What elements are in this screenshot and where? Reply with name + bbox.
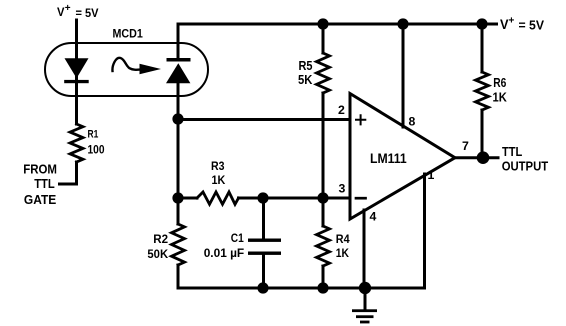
node R6 top junction (482,24) [476,18,487,29]
wire node B down to R2 [177,198,180,224]
svg-text:OUTPUT: OUTPUT [502,159,549,174]
wire pin2 input rail [178,118,350,121]
svg-text:R4: R4 [336,232,350,246]
light arrow (squiggle) inside MCD1 [112,58,161,74]
wire photodiode anode down to node A [177,82,180,119]
wire top rail V+ [178,23,497,26]
wire bottom rail [178,287,425,290]
wire node A down to node B [177,119,180,198]
svg-text:R1: R1 [88,129,99,141]
node R4 bottom junction (323,288) [317,282,328,293]
wire photodiode cathode riser [177,24,180,58]
wire node B to R3 [178,197,197,200]
svg-text:V: V [57,5,65,19]
node C1 bottom junction (263,288) [257,282,268,293]
wire pin 8 from top rail [402,24,405,127]
svg-text:4: 4 [370,210,377,224]
resistor R3 [197,192,239,204]
svg-text:5K: 5K [298,73,312,87]
resistor R6 [476,24,489,158]
svg-text:C1: C1 [231,231,244,245]
svg-text:FROM: FROM [23,162,57,177]
svg-text:R5: R5 [299,59,313,73]
node ground junction (365,288) [359,282,371,294]
node B junction (178,198) [172,192,183,203]
svg-text:1: 1 [428,168,435,182]
svg-text:+: + [65,3,71,14]
svg-text:1K: 1K [493,91,507,105]
svg-text:7: 7 [462,139,469,153]
wire LED anode from V+ [75,20,78,59]
svg-text:3: 3 [339,182,346,196]
wire R3 to pin3 of U1 [239,197,351,200]
node A junction (178,119) [172,113,183,124]
svg-text:GATE: GATE [24,192,57,207]
svg-text:= 5V: = 5V [519,19,545,33]
wire pin 1 to bottom rail [423,174,426,288]
svg-text:0.01 µF: 0.01 µF [204,246,245,260]
node R5/R4 junction (323,198) [317,192,328,203]
svg-text:50K: 50K [147,247,168,261]
resistor R5 [317,24,330,198]
minus sign (pin 3 input) [356,197,366,200]
node C1 top junction (263,198) [257,192,268,203]
svg-text:TTL: TTL [502,144,522,159]
svg-text:2: 2 [338,103,345,117]
photodiode inside MCD1 (cathode bar top, pointing up) [166,58,191,83]
resistor R4 [317,198,330,288]
optocoupler MCD1 body [45,43,208,96]
svg-text:R6: R6 [493,76,506,90]
svg-text:8: 8 [409,114,416,128]
svg-text:1K: 1K [336,246,349,260]
wire pin 4 to bottom rail [363,210,366,288]
ground [352,288,377,323]
wire LED cathode down to R1 [75,83,78,124]
node pin8 top junction (403,24) [397,18,408,29]
svg-text:R2: R2 [153,232,168,246]
op-amp U1 LM111 [350,94,455,220]
resistor R1 [70,124,83,162]
resistor R2 [172,224,185,265]
wire pin 7 output [455,156,498,159]
plus sign (pin 2 input) [356,115,365,124]
svg-text:R3: R3 [211,161,225,173]
node R5 top junction (323,24) [317,18,328,29]
svg-text:LM111: LM111 [370,151,407,166]
svg-text:MCD1: MCD1 [113,26,144,40]
wire R2 to bottom rail [177,265,180,288]
svg-text:+: + [509,16,515,27]
LED inside MCD1 (anode top, cathode bar below) [64,58,89,83]
svg-text:100: 100 [88,145,105,157]
svg-text:= 5V: = 5V [76,6,100,20]
svg-text:V: V [500,17,509,32]
wire R1 to FROM TTL GATE stub [60,162,77,184]
capacitor C1 [248,198,281,288]
svg-text:TTL: TTL [34,176,55,191]
svg-text:1K: 1K [212,175,226,187]
node output junction (483,157.7) [477,151,490,164]
